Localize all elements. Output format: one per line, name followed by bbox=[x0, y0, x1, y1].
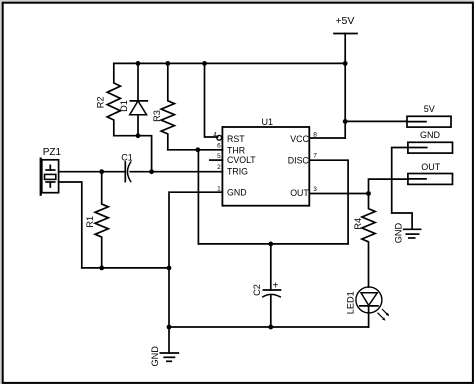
node: +5V / top rail junction bbox=[343, 61, 348, 66]
wire C1 right to TRIG pin bbox=[130, 171, 222, 173]
wire THR node down to C2 line bbox=[197, 150, 199, 244]
wire top rail bbox=[114, 62, 345, 64]
svg-text:2: 2 bbox=[217, 164, 221, 171]
svg-text:+: + bbox=[273, 281, 279, 292]
svg-text:5V: 5V bbox=[424, 104, 435, 114]
svg-text:TRIG: TRIG bbox=[227, 167, 248, 177]
node: D1 bottom junction bbox=[136, 133, 141, 138]
node: D1 top junction bbox=[136, 61, 141, 66]
node: R1 top junction bbox=[99, 169, 104, 174]
node: C1/D1 junction bbox=[149, 169, 154, 174]
node: C2 top junction bbox=[268, 242, 273, 247]
svg-text:OUT: OUT bbox=[290, 188, 309, 198]
wire bottom ground rail bbox=[169, 326, 369, 328]
svg-text:GND: GND bbox=[227, 188, 247, 198]
svg-text:6: 6 bbox=[217, 143, 221, 150]
wire OUT to header bbox=[369, 179, 408, 193]
svg-text:OUT: OUT bbox=[421, 162, 441, 172]
svg-text:CVOLT: CVOLT bbox=[227, 155, 256, 165]
svg-text:DISC: DISC bbox=[288, 155, 310, 165]
wire OUT pin 3 bbox=[309, 193, 368, 195]
svg-text:LED1: LED1 bbox=[345, 291, 355, 314]
svg-text:GND: GND bbox=[393, 222, 403, 243]
svg-text:C2: C2 bbox=[252, 284, 262, 296]
node: +5V / 5V header tap bbox=[343, 119, 348, 124]
svg-text:RST: RST bbox=[227, 134, 245, 144]
power +5V bbox=[334, 15, 357, 138]
wire PZ1 top to TRIG (net with C1) bbox=[59, 171, 126, 173]
piezo PZ1 bbox=[40, 147, 62, 196]
svg-text:R4: R4 bbox=[353, 218, 363, 230]
LED LED1 bbox=[345, 287, 389, 327]
node: RST wire top junction bbox=[202, 61, 207, 66]
svg-text:GND: GND bbox=[420, 130, 441, 140]
svg-text:+5V: +5V bbox=[335, 15, 354, 27]
capacitor C2 bbox=[252, 244, 281, 327]
diode D1 bbox=[119, 63, 148, 135]
svg-text:5: 5 bbox=[217, 153, 221, 160]
pin 5 CVOLT stub bbox=[210, 159, 223, 161]
wire ground rail left bbox=[82, 267, 169, 269]
capacitor C1 bbox=[121, 152, 133, 181]
svg-text:R3: R3 bbox=[152, 110, 162, 122]
wire THR to R3 bbox=[168, 149, 223, 151]
node: OUT junction bbox=[366, 191, 371, 196]
svg-text:D1: D1 bbox=[119, 100, 129, 112]
resistor R4 bbox=[353, 194, 375, 288]
connector 5V bbox=[407, 104, 451, 127]
svg-text:R1: R1 bbox=[85, 216, 95, 228]
ground symbol bottom bbox=[150, 327, 178, 367]
wire GND header to ground symbol bbox=[392, 148, 412, 229]
svg-text:R2: R2 bbox=[95, 96, 105, 108]
connector GND bbox=[408, 130, 453, 153]
svg-text:U1: U1 bbox=[262, 117, 274, 127]
node: C2 bottom junction bbox=[268, 325, 273, 330]
ground symbol right bbox=[393, 222, 420, 243]
wire DISC pin 7 down to C2 line bbox=[309, 160, 348, 244]
wire GND pin 1 bbox=[169, 192, 222, 327]
svg-text:C1: C1 bbox=[121, 152, 133, 162]
svg-text:GND: GND bbox=[150, 346, 160, 367]
node: R1 bottom junction bbox=[99, 266, 104, 271]
node: R3 top junction bbox=[165, 61, 170, 66]
node: bottom rail / GND symbol junction bbox=[167, 325, 172, 330]
wire VCC pin 8 to +5V bbox=[309, 137, 345, 139]
connector OUT bbox=[408, 162, 453, 185]
node: rail / GND pin wire junction bbox=[167, 266, 172, 271]
resistor R3 bbox=[152, 63, 175, 149]
node: THR junction bbox=[195, 147, 200, 152]
svg-text:4: 4 bbox=[213, 132, 217, 139]
wire PZ1 bottom to ground rail bbox=[59, 182, 82, 268]
wire RST from top rail bbox=[205, 63, 218, 137]
resistor R2 bbox=[95, 63, 120, 135]
wire D1/R2 bottom to C1 node bbox=[114, 136, 152, 172]
svg-text:VCC: VCC bbox=[290, 134, 309, 144]
wire 5V header feed bbox=[345, 120, 407, 122]
wire C2 top line bbox=[198, 243, 348, 245]
svg-text:PZ1: PZ1 bbox=[43, 147, 62, 158]
resistor R1 bbox=[85, 172, 108, 268]
op-amp U1 (555 timer) bbox=[213, 117, 317, 206]
svg-text:7: 7 bbox=[313, 152, 317, 159]
svg-text:3: 3 bbox=[313, 186, 317, 193]
